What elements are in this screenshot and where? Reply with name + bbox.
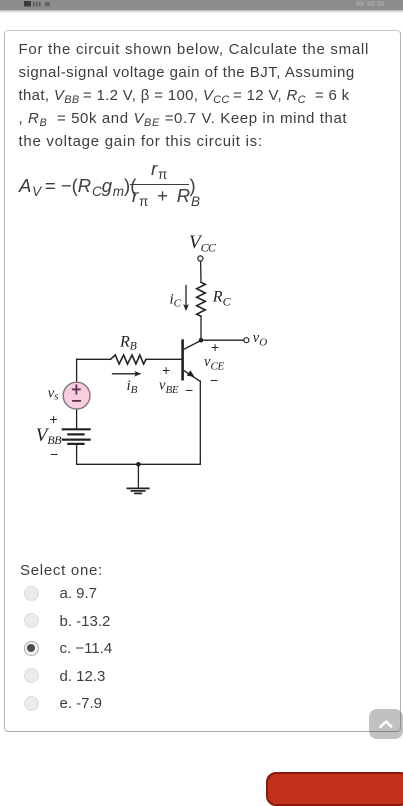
- scroll-to-top button: [369, 709, 403, 739]
- transistor Q1 collector lead: [183, 340, 201, 349]
- battery VBB plates: [63, 429, 90, 444]
- node bottom junction: [136, 462, 141, 467]
- current arrow iB: [113, 371, 142, 377]
- wire left down to vs source: [76, 359, 78, 382]
- svg-text:−: −: [210, 372, 218, 388]
- svg-text:vBE: vBE: [159, 378, 179, 397]
- wire VCC to RC: [200, 261, 202, 282]
- svg-text:−: −: [185, 382, 193, 398]
- svg-text:RB: RB: [119, 334, 137, 353]
- svg-text:RC: RC: [212, 289, 232, 309]
- wire bottom rail: [77, 463, 201, 465]
- svg-text:+: +: [50, 411, 58, 427]
- node collector junction: [199, 338, 204, 343]
- radio e: [24, 696, 39, 711]
- wire collector node to vO terminal: [201, 339, 244, 341]
- svg-text:iB: iB: [127, 378, 138, 396]
- svg-text:vCE: vCE: [204, 354, 224, 373]
- wire battery to bottom rail: [76, 444, 78, 464]
- svg-text:−: −: [50, 446, 58, 462]
- wire vs source to battery: [76, 409, 78, 429]
- wire RC to collector node: [200, 316, 202, 340]
- status icons: [0, 0, 403, 10]
- node VCC terminal: [198, 256, 203, 261]
- wire vs to RB: [77, 358, 111, 360]
- radio c selected: [24, 641, 39, 656]
- transistor Q1 base bar: [181, 341, 184, 380]
- node vO terminal: [244, 338, 249, 343]
- svg-text:vO: vO: [253, 330, 267, 349]
- current arrow iC: [183, 286, 189, 312]
- svg-text:iC: iC: [170, 292, 182, 310]
- transistor Q1 emitter arrowhead: [187, 370, 195, 377]
- wire emitter down: [199, 381, 201, 464]
- vs polarity marks: [73, 385, 80, 401]
- radio d: [24, 668, 39, 683]
- source vs circle: [63, 382, 90, 409]
- svg-text:+: +: [211, 339, 219, 355]
- resistor RB: [111, 355, 147, 364]
- transistor Q1 emitter lead: [183, 370, 200, 382]
- wire base to RB: [146, 358, 181, 360]
- radio b: [24, 613, 39, 628]
- ground: [137, 464, 139, 488]
- formula Av: [19, 177, 136, 196]
- labels: [36, 232, 267, 462]
- svg-text:VBB: VBB: [36, 425, 61, 447]
- svg-text:vs: vs: [48, 385, 59, 402]
- svg-text:VCC: VCC: [189, 232, 217, 255]
- svg-text:+: +: [162, 362, 170, 378]
- radio a: [24, 586, 39, 601]
- red bottom button: [266, 772, 403, 806]
- resistor RC: [197, 282, 206, 316]
